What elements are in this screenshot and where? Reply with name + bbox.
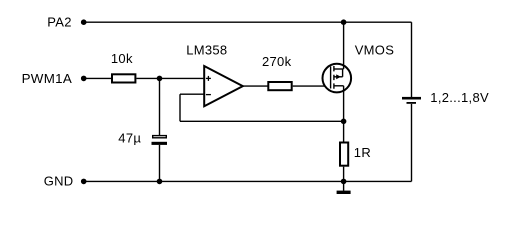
battery B1 [402,97,421,104]
capacitor C 47u [152,136,168,145]
wire drain [343,22,345,69]
op-amp U1 LM358 [204,66,243,106]
junction node feedback/source [341,119,347,125]
terminal dot PA2 [81,19,87,25]
wire feedback horizontal [180,120,344,122]
wire junction to capacitor [159,78,161,135]
wire R 10k to op-amp +in [136,77,204,79]
svg-text:PWM1A: PWM1A [22,71,73,86]
junction node drain/PA2 [341,19,347,25]
ground symbol [337,181,351,194]
svg-text:1,2...1,8V: 1,2...1,8V [430,90,489,105]
svg-text:10k: 10k [111,51,133,66]
junction node 1R/GND [341,179,347,185]
wire battery bottom [411,104,413,181]
junction node capacitor branch [157,76,163,82]
svg-text:270k: 270k [262,54,292,69]
wire GND rail [84,180,412,182]
terminal dot GND [81,179,87,185]
terminal dot PWM1A [81,76,87,82]
wire source to R 1R [343,86,345,142]
wire R 270k to gate [293,85,331,87]
wire feedback vertical [179,94,181,121]
wire PWM1A to R 10k [84,77,112,79]
svg-text:47µ: 47µ [118,131,141,146]
wire op-amp output to R 270k [243,85,268,87]
svg-text:VMOS: VMOS [355,43,395,58]
wire battery top [411,22,413,97]
wire PA2 rail [84,21,412,23]
svg-text:LM358: LM358 [186,43,227,58]
svg-text:PA2: PA2 [47,15,72,30]
resistor 270k [268,82,291,90]
wire capacitor to GND rail [159,145,161,182]
wire op-amp -in stub [180,93,204,95]
resistor 1R [340,143,348,166]
svg-text:GND: GND [44,174,74,189]
transistor Q1 VMOS [323,64,352,93]
svg-text:1R: 1R [354,145,371,160]
resistor 10k [112,74,135,82]
junction node capacitor/GND [157,179,163,185]
wire R 1R to GND rail [343,167,345,182]
